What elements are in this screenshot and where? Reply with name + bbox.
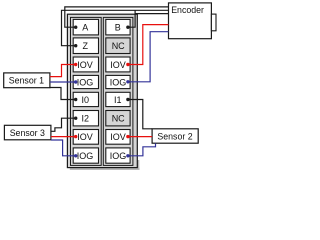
wire encoder IOG blue xyxy=(128,32,169,82)
terminal NC upper xyxy=(106,38,130,54)
terminal A xyxy=(73,19,98,35)
terminal NC lower xyxy=(106,111,130,126)
svg-text:IOV: IOV xyxy=(77,132,93,142)
node Z xyxy=(74,44,77,47)
wire encoder Z xyxy=(62,10,169,45)
wire sensor1 IOG blue xyxy=(50,81,76,83)
encoder box U1 xyxy=(169,3,217,39)
sensor 1 box xyxy=(4,73,50,88)
node IOG right upper xyxy=(126,80,129,83)
wire sensor3 I2 black xyxy=(51,118,76,131)
svg-text:IOV: IOV xyxy=(110,132,126,142)
terminal IOG left lower xyxy=(73,148,98,163)
wire sensor1 I0 black xyxy=(50,88,76,100)
terminal I2 xyxy=(73,111,98,126)
terminal I1 xyxy=(106,92,130,106)
wire encoder IOV red xyxy=(128,25,169,65)
node I0 xyxy=(74,98,77,101)
svg-text:Sensor 2: Sensor 2 xyxy=(157,131,192,141)
terminal IOV left upper xyxy=(73,57,98,72)
node IOV left lower xyxy=(74,135,77,138)
wire sensor2 IOG blue xyxy=(128,143,156,156)
wire encoder A xyxy=(65,7,169,27)
svg-text:IOV: IOV xyxy=(110,60,126,70)
terminal block outer box TB1 xyxy=(67,14,137,167)
terminal IOG right lower xyxy=(106,148,130,163)
svg-text:NC: NC xyxy=(112,114,125,124)
svg-text:IOG: IOG xyxy=(110,151,127,161)
node I2 xyxy=(74,117,77,120)
svg-text:I2: I2 xyxy=(81,114,89,124)
wire sensor2 IOV red xyxy=(128,136,152,138)
terminal Z xyxy=(73,38,98,54)
svg-text:IOG: IOG xyxy=(77,77,94,87)
terminal IOV right upper xyxy=(106,57,130,72)
sensor 2 box xyxy=(152,129,198,143)
terminal IOG left upper xyxy=(73,75,98,88)
terminal sub-box left xyxy=(71,17,102,165)
wire encoder B riser xyxy=(128,10,135,27)
terminal sub-box right xyxy=(103,17,133,165)
svg-text:IOG: IOG xyxy=(110,77,127,87)
node IOV right lower xyxy=(126,135,129,138)
svg-text:B: B xyxy=(115,23,121,33)
svg-text:Encoder: Encoder xyxy=(171,5,204,15)
svg-text:Sensor 1: Sensor 1 xyxy=(9,75,44,85)
node IOV right upper xyxy=(126,63,129,66)
node IOG left lower xyxy=(74,154,77,157)
wire encoder third line xyxy=(135,13,168,15)
terminal IOV left lower xyxy=(73,130,98,145)
wire sensor3 IOG blue xyxy=(51,140,76,156)
node IOG left upper xyxy=(74,80,77,83)
svg-text:IOG: IOG xyxy=(77,151,94,161)
svg-text:I1: I1 xyxy=(114,95,122,105)
sensor 3 box xyxy=(4,125,51,140)
terminal block shadow xyxy=(70,160,140,170)
node IOV left upper xyxy=(74,63,77,66)
wire sensor2 I1 black xyxy=(128,100,152,129)
node B xyxy=(126,26,129,29)
svg-text:A: A xyxy=(82,23,88,33)
terminal I0 xyxy=(73,92,98,106)
svg-text:Z: Z xyxy=(82,41,88,51)
terminal IOV right lower xyxy=(106,130,130,145)
svg-text:Sensor 3: Sensor 3 xyxy=(10,128,45,138)
node A xyxy=(74,26,77,29)
svg-text:NC: NC xyxy=(112,41,125,51)
svg-text:IOV: IOV xyxy=(77,60,93,70)
wire sensor1 IOV red xyxy=(50,65,76,77)
node IOG right lower xyxy=(126,154,129,157)
terminal B xyxy=(106,19,130,35)
terminal IOG right upper xyxy=(106,75,130,88)
svg-text:I0: I0 xyxy=(81,95,89,105)
wire sensor3 IOV red xyxy=(51,136,76,138)
node I1 xyxy=(126,98,129,101)
